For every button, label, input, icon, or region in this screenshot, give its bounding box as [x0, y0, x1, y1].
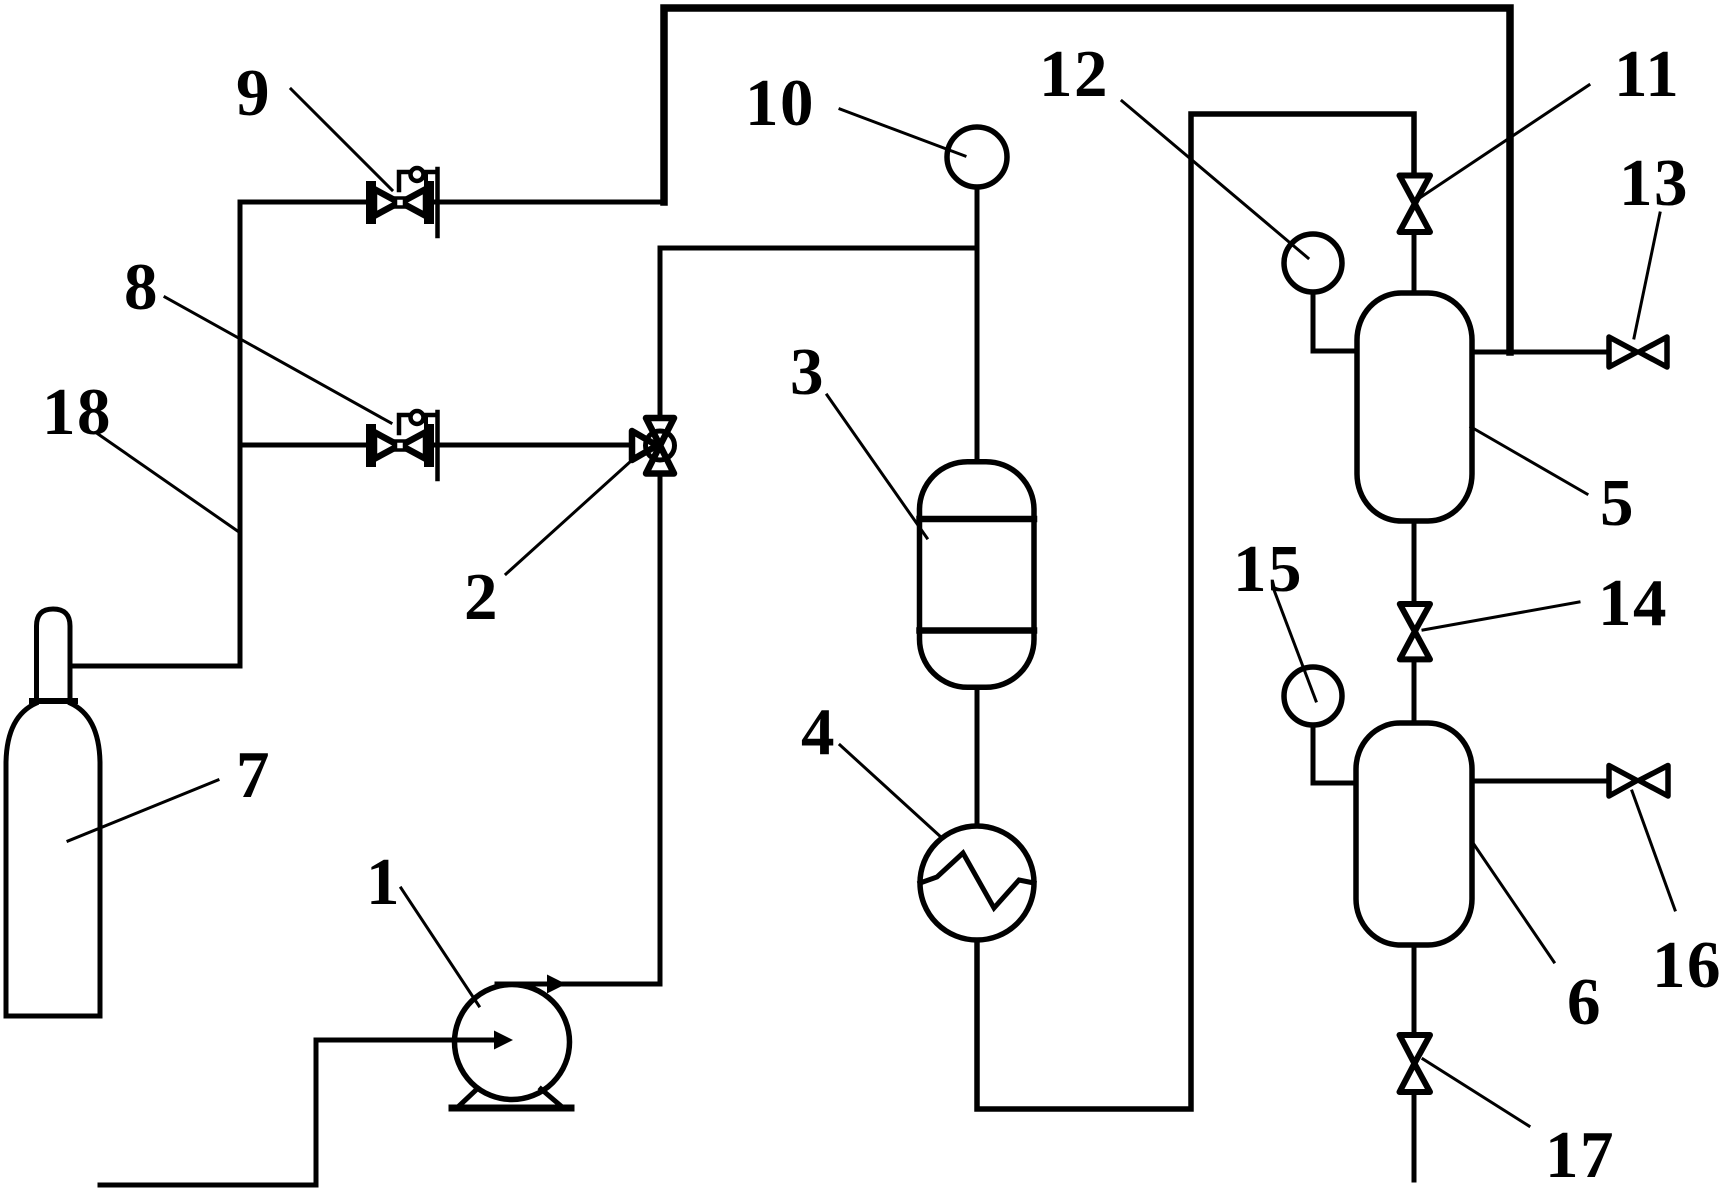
heat exchanger 4	[920, 826, 1034, 940]
leader line for label 12	[1122, 101, 1308, 258]
svg-text:6: 6	[1567, 965, 1601, 1039]
control valve 9 with actuator	[371, 168, 438, 236]
pressure gauge 12	[1284, 234, 1342, 292]
svg-text:12: 12	[1039, 37, 1109, 111]
wire: vessel 5 bottom stem to valve 14	[1412, 521, 1417, 604]
valve 11	[1400, 176, 1431, 233]
valve 13	[1609, 337, 1667, 367]
wire: vessel 5 right outlet pipe to valve 13	[1472, 350, 1610, 355]
wire: heat exchanger 4 outlet down, right and up the tall riser to top right, over to valve 11	[977, 114, 1414, 1109]
gas cylinder 7	[6, 609, 100, 1016]
leader line for label 7	[68, 780, 218, 841]
pump 1	[455, 985, 570, 1100]
vessel 6	[1356, 723, 1472, 945]
svg-text:11: 11	[1614, 37, 1680, 111]
wire: valve 11 outlet stem into vessel 5 top	[1412, 232, 1417, 295]
leader line for label 4	[840, 745, 942, 838]
leader line for label 5	[1471, 427, 1587, 494]
svg-text:18: 18	[42, 375, 112, 449]
leader line for label 6	[1473, 843, 1554, 962]
wire: valve 14 outlet stem into vessel 6 top	[1412, 659, 1417, 724]
leader line for label 17	[1423, 1059, 1529, 1126]
wire: vessel 6 right outlet pipe to valve 16	[1472, 779, 1609, 784]
svg-text:7: 7	[236, 738, 270, 812]
leader line for label 11	[1421, 85, 1589, 197]
leader line for label 13	[1634, 213, 1660, 338]
leader line for label 15	[1274, 590, 1316, 701]
svg-text:9: 9	[236, 56, 270, 130]
leader line for label 16	[1632, 791, 1675, 910]
svg-text:3: 3	[790, 335, 824, 409]
svg-text:17: 17	[1545, 1118, 1615, 1189]
wire: top loop pipe from node above valve 9 to vessel 5 outlet line	[664, 8, 1510, 352]
svg-text:4: 4	[801, 695, 835, 769]
svg-text:8: 8	[124, 250, 158, 324]
valve 14	[1400, 604, 1430, 659]
leader line for label 3	[827, 395, 927, 538]
wire: gauge 15 stem down and right to vessel 6	[1313, 725, 1356, 783]
valve 16	[1609, 766, 1668, 797]
wire: cylinder 7 neck outlet horizontal pipe	[70, 664, 240, 669]
three-way valve 2	[632, 418, 675, 474]
leader line for label 10	[840, 109, 965, 156]
wire: gauge 12 stem down and right to vessel 5	[1313, 292, 1357, 351]
svg-text:10: 10	[745, 66, 815, 140]
vessel 3 with packing bed lines	[920, 462, 1035, 688]
leader line for label 1	[401, 888, 479, 1006]
leader line for label 2	[506, 461, 631, 574]
leader line for label 9	[291, 89, 392, 190]
svg-text:16: 16	[1652, 928, 1722, 1002]
wire: vessel 6 bottom stem to valve 17	[1412, 945, 1417, 1035]
wire: valve 9 inlet/outlet horizontal pipe	[240, 200, 663, 205]
wire: pump suction pipe with bottom-left inlet	[100, 1040, 455, 1185]
svg-text:5: 5	[1600, 466, 1634, 540]
leader line for label 8	[165, 297, 391, 423]
wire: valve 8 horizontal pipe to valve 2	[240, 443, 632, 448]
svg-text:15: 15	[1233, 532, 1303, 606]
leader line for label 14	[1423, 602, 1579, 630]
control valve 8 with actuator	[371, 411, 438, 479]
svg-text:14: 14	[1598, 566, 1668, 640]
svg-text:2: 2	[464, 560, 498, 634]
wire: gauge 10 stem down into vessel 3 top	[975, 187, 980, 462]
svg-text:1: 1	[366, 845, 400, 919]
pressure gauge 10	[947, 127, 1007, 187]
wire: pump discharge riser through valve 2 up to top header	[658, 248, 663, 984]
pressure gauge 15	[1284, 667, 1342, 725]
wire: left header vertical pipe from valve 9 line down to cylinder outlet	[238, 202, 243, 666]
wire: horizontal header from riser to vessel 3 top stem	[660, 246, 977, 251]
vessel 5	[1357, 293, 1472, 521]
wire: vessel 3 bottom stem to heat exchanger 4	[975, 688, 980, 827]
leader line for label 18	[98, 434, 239, 532]
svg-text:13: 13	[1619, 146, 1689, 220]
wire: valve 17 outlet drain stem	[1412, 1092, 1417, 1180]
valve 17	[1400, 1035, 1431, 1092]
